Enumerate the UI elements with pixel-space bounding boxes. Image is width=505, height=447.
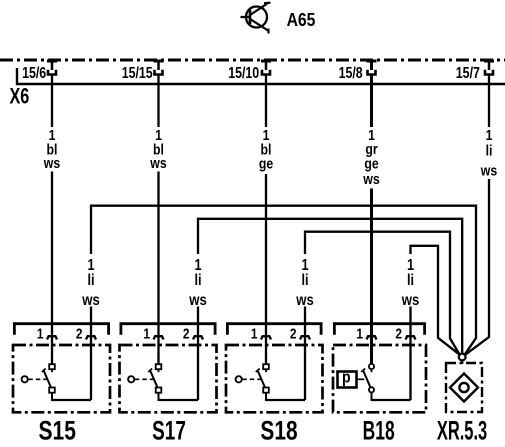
pin 1 plug of S17	[154, 336, 164, 339]
connector rail on S17	[121, 324, 215, 335]
svg-text:li: li	[301, 272, 308, 289]
svg-text:p: p	[342, 368, 351, 386]
label XR.5.3	[437, 415, 487, 445]
svg-text:XR.5.3: XR.5.3	[437, 415, 487, 445]
XR.5.3 plug symbol diamond	[450, 374, 478, 402]
connector rail on B18	[334, 324, 424, 335]
label 15/7	[456, 64, 480, 82]
wire label 1 li ws	[81, 257, 99, 309]
wire label 1 li ws	[188, 257, 206, 309]
wire S17 pin 2 to node	[198, 219, 462, 354]
wire S18 pin 2 to node	[305, 232, 460, 355]
label 15/6	[22, 64, 46, 82]
switch contact of S18	[263, 364, 269, 372]
svg-text:15/10: 15/10	[228, 64, 259, 82]
bus line 15 (dash-dot rail)	[0, 59, 505, 62]
switch pivot of B18	[369, 387, 374, 401]
wire label 1 li ws	[401, 257, 419, 309]
label A65	[287, 9, 316, 31]
label 15/8	[339, 64, 363, 82]
svg-text:1: 1	[37, 325, 44, 341]
connector pin X6 15/7	[484, 60, 494, 75]
svg-text:2: 2	[76, 325, 83, 341]
svg-text:li: li	[407, 272, 414, 289]
svg-text:S15: S15	[39, 416, 76, 446]
svg-text:15/7: 15/7	[456, 64, 480, 82]
pressure actuator p of B18	[338, 368, 365, 387]
connector rail on S18	[227, 324, 321, 335]
switch lever of B18	[361, 369, 370, 388]
pin 2 label of S18	[290, 325, 297, 341]
plug connector XR.5.3 dashed box	[446, 363, 482, 412]
dashed box S15	[13, 345, 110, 412]
svg-text:S18: S18	[260, 416, 297, 446]
svg-text:2: 2	[183, 325, 190, 341]
svg-text:15/15: 15/15	[122, 64, 153, 82]
label S18	[260, 416, 297, 446]
label S15	[39, 416, 76, 446]
wire pivot to pin 2 inside S18	[266, 399, 305, 401]
svg-text:ws: ws	[480, 162, 498, 178]
wire label 1 li ws	[480, 127, 498, 179]
connector pin X6 15/10	[261, 60, 271, 75]
svg-text:2: 2	[290, 325, 297, 341]
label 15/10	[228, 64, 259, 82]
switch lever of S18	[256, 369, 265, 388]
wire pin 2 into box	[90, 307, 92, 401]
pin 1 label of S15	[37, 325, 44, 341]
switch pivot of S15	[49, 388, 55, 402]
wire from 15/15 down	[157, 75, 159, 127]
dashed box S17	[120, 345, 217, 412]
wire pin 2 into box	[197, 307, 199, 401]
label 15/15	[122, 64, 153, 82]
pin 1 plug of S15	[47, 336, 57, 339]
wire pivot to pin 2 inside B18	[372, 399, 411, 401]
pin 2 label of S15	[76, 325, 83, 341]
control unit A65 symbol	[241, 3, 271, 34]
svg-text:B18: B18	[363, 415, 395, 446]
wire label 1 bl ws	[149, 127, 167, 172]
svg-text:1: 1	[251, 325, 258, 341]
switch contact of S17	[156, 364, 162, 372]
svg-text:ge: ge	[364, 155, 379, 171]
pin 1 label of B18	[356, 325, 363, 341]
dashed box S18	[226, 345, 323, 412]
pin 2 label of S17	[183, 325, 190, 341]
svg-text:2: 2	[395, 325, 402, 341]
label X6	[10, 84, 30, 109]
pin 2 plug of S18	[300, 336, 310, 339]
wire B18 pin 2 to node	[411, 246, 460, 355]
switch pivot of S18	[263, 388, 269, 402]
svg-text:A65: A65	[287, 9, 316, 31]
manual actuator of S17	[128, 376, 154, 382]
connector X6 rail	[16, 68, 505, 84]
svg-text:15/8: 15/8	[339, 64, 363, 82]
pin 2 plug of S15	[86, 336, 96, 339]
switch lever of S17	[148, 369, 157, 388]
svg-text:ws: ws	[43, 155, 61, 171]
pin 1 label of S17	[143, 325, 150, 341]
svg-text:1: 1	[143, 325, 150, 341]
pin 1 label of S18	[251, 325, 258, 341]
pin 1 plug of S18	[261, 336, 271, 339]
svg-text:li: li	[87, 272, 94, 289]
pin 2 plug of S17	[193, 336, 203, 339]
connector pin X6 15/8	[367, 60, 377, 75]
wire from 15/6 down	[51, 75, 53, 127]
wire pin 2 into box	[409, 307, 411, 401]
node splice to XR.5.3	[459, 354, 466, 364]
connector pin X6 15/15	[154, 60, 164, 75]
svg-text:li: li	[486, 142, 493, 158]
pin 1 plug of B18	[367, 336, 377, 339]
wire label 1 li ws	[295, 257, 313, 309]
svg-text:1: 1	[486, 127, 493, 143]
wire label 1 bl ws	[43, 127, 61, 172]
svg-text:S17: S17	[152, 415, 186, 445]
connector pin X6 15/6	[47, 60, 57, 75]
svg-text:X6: X6	[10, 84, 30, 109]
wire 15/8 lower segment	[370, 189, 373, 364]
pin 2 label of B18	[395, 325, 402, 341]
switch contact of B18	[369, 364, 374, 372]
svg-text:ws: ws	[362, 171, 380, 187]
wire from 15/7 down	[488, 75, 490, 127]
wire pivot to pin 2 inside S17	[159, 399, 199, 401]
wire label 1 gr ge ws	[362, 127, 380, 187]
svg-text:15/6: 15/6	[22, 64, 46, 82]
switch lever of S15	[42, 369, 51, 388]
switch contact of S15	[49, 364, 55, 372]
wire 15/7 lower segment	[465, 179, 489, 355]
wire S15 pin 2 to node	[91, 206, 476, 355]
svg-text:ws: ws	[149, 155, 167, 171]
pin 2 plug of B18	[406, 336, 416, 339]
wire 15/15 lower segment	[157, 172, 159, 364]
manual actuator of S18	[236, 376, 262, 382]
wire label 1 bl ge	[259, 127, 274, 172]
wire pin 2 into box	[304, 307, 306, 401]
dashed box B18	[333, 345, 426, 412]
svg-text:ge: ge	[259, 155, 274, 171]
connector rail on S15	[14, 324, 108, 335]
switch pivot of S17	[156, 388, 162, 402]
wire from 15/10 down	[265, 75, 267, 127]
wire 15/10 lower segment	[265, 174, 267, 364]
wire pivot to pin 2 inside S15	[52, 399, 91, 401]
wire 15/6 lower segment	[51, 172, 53, 364]
label B18	[363, 415, 395, 446]
svg-text:1: 1	[356, 325, 363, 341]
svg-text:li: li	[194, 272, 201, 289]
label S17	[152, 415, 186, 445]
wire from 15/8 down	[370, 75, 373, 127]
manual actuator of S15	[22, 376, 48, 382]
